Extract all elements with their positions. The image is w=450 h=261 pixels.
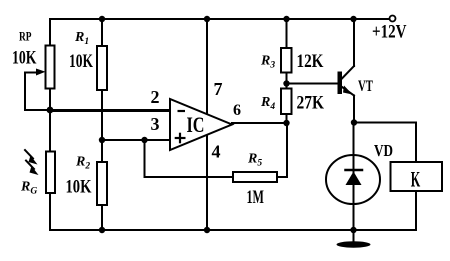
svg-text:27K: 27K	[297, 93, 325, 114]
svg-text:1M: 1M	[247, 187, 265, 208]
svg-text:K: K	[411, 167, 421, 192]
svg-text:12K: 12K	[297, 51, 324, 72]
svg-text:+12V: +12V	[372, 22, 407, 43]
svg-text:4: 4	[212, 142, 221, 162]
svg-text:3: 3	[151, 114, 160, 134]
svg-text:RP: RP	[19, 29, 32, 44]
svg-text:VD: VD	[374, 141, 393, 160]
svg-text:10K: 10K	[12, 48, 37, 69]
svg-text:7: 7	[214, 79, 223, 99]
svg-text:6: 6	[233, 102, 241, 119]
svg-text:10K: 10K	[66, 177, 92, 198]
svg-text:VT: VT	[358, 78, 373, 95]
svg-text:IC: IC	[187, 112, 205, 137]
svg-text:2: 2	[151, 87, 160, 107]
svg-text:10K: 10K	[69, 51, 93, 72]
